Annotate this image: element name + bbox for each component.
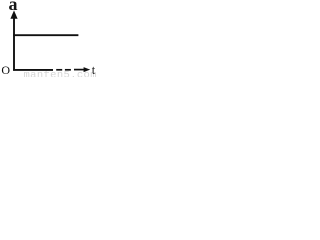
background [0, 0, 99, 77]
t-axis arrow shaft [74, 69, 85, 71]
constant acceleration line [13, 34, 78, 36]
t-axis arrowhead [84, 67, 91, 72]
t-axis solid segment [13, 69, 53, 71]
a-axis (vertical) wire [13, 17, 15, 71]
svg-text:t: t [92, 63, 96, 77]
svg-text:a: a [9, 0, 18, 14]
a-axis arrowhead [10, 10, 17, 18]
t-axis dash 1 [56, 69, 62, 71]
svg-text:O: O [1, 63, 10, 77]
t-axis dash 2 [65, 69, 71, 71]
